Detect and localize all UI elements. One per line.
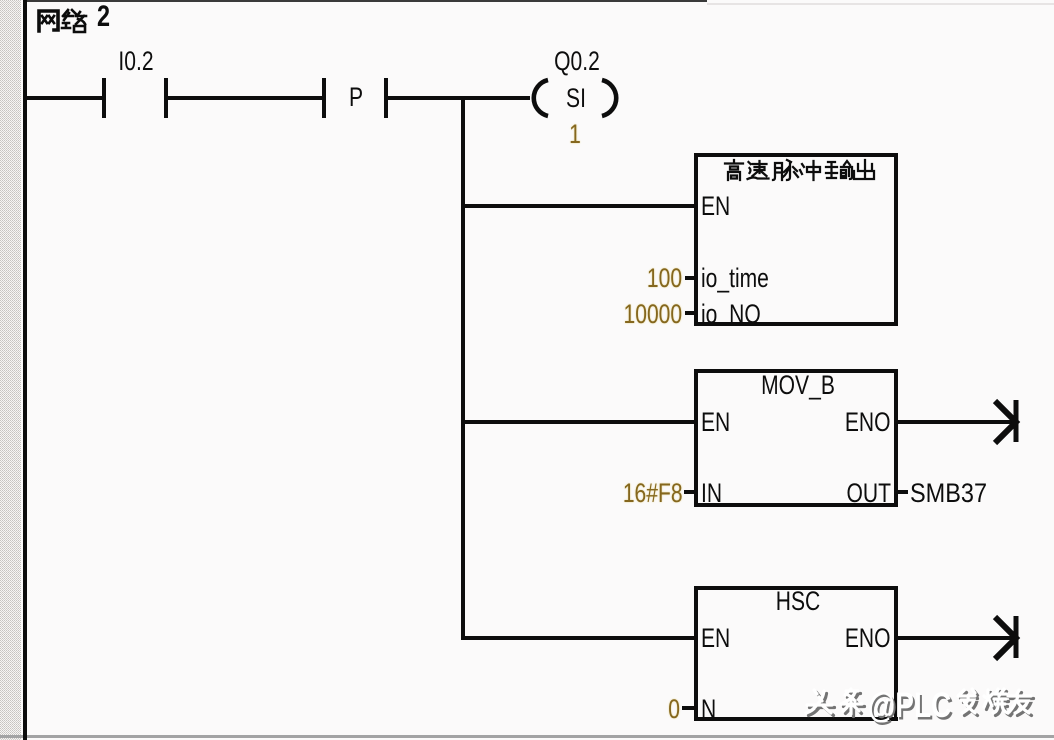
- branch vertical wire: [461, 96, 465, 640]
- watermark 头条 @PLC发烧友: [804, 687, 1036, 721]
- bottom separator line: [0, 735, 1054, 738]
- ENO wire to arrow: [898, 420, 1014, 424]
- block U1 title 高速脉冲输出: [724, 159, 874, 181]
- top border line: [27, 0, 707, 2]
- rung wire from rail to contact I0.2: [27, 96, 102, 100]
- wire: [388, 96, 530, 100]
- block U1: 高速脉冲输出 box: [694, 153, 898, 326]
- OUT tick and SMB37: [898, 490, 908, 494]
- value 0 for N: [668, 696, 680, 723]
- value 10000 for io_NO: [623, 301, 682, 328]
- block U3: HSC box: [694, 586, 898, 721]
- coil Q0.2 SI: [525, 68, 625, 128]
- rung-end arrow (HSC): [986, 609, 1026, 669]
- contact P (positive edge): [322, 78, 326, 118]
- value 16#F8 for IN: [623, 480, 683, 507]
- rung-end arrow (MOV_B): [986, 393, 1026, 453]
- left hatched margin strip: [0, 0, 21, 740]
- block U2: MOV_B box: [694, 369, 898, 507]
- wire: [168, 96, 322, 100]
- wire to block3 EN: [461, 636, 694, 640]
- contact I0.2: [102, 78, 106, 118]
- wire to block1 EN: [461, 204, 694, 208]
- ENO wire to arrow: [898, 636, 1014, 640]
- left power rail: [23, 0, 27, 740]
- wire to block2 EN: [461, 420, 694, 424]
- value 100 for io_time: [647, 265, 682, 292]
- network title 网络 2: [36, 8, 88, 34]
